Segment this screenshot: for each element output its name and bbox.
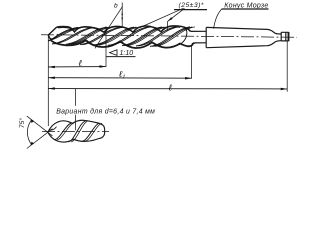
svg-text:(25±3)*: (25±3)*: [179, 2, 204, 9]
svg-text:ℓ1: ℓ1: [119, 69, 126, 80]
svg-text:ℓ: ℓ: [168, 82, 172, 92]
svg-text:Конус Морзе: Конус Морзе: [224, 2, 268, 9]
svg-text:1:10: 1:10: [120, 50, 134, 57]
svg-text:b: b: [114, 2, 118, 9]
svg-text:Вариант для d=6,4 и 7,4 мм: Вариант для d=6,4 и 7,4 мм: [56, 108, 155, 116]
svg-text:ℓ: ℓ: [78, 58, 82, 68]
svg-text:75°: 75°: [18, 118, 26, 129]
